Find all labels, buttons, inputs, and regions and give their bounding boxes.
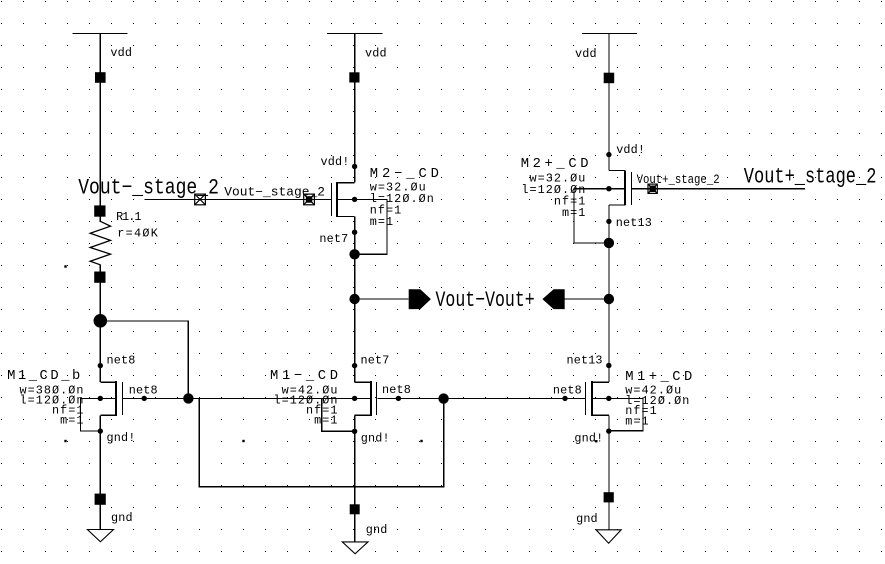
svg-text:net13: net13 [616,216,652,230]
svg-text:vdd: vdd [110,46,132,60]
svg-text:net8: net8 [382,383,411,397]
svg-text:net7: net7 [361,353,390,367]
svg-text:gnd: gnd [111,511,133,525]
svg-text:Vout−_stage_2: Vout−_stage_2 [78,176,219,201]
svg-text:Vout+_stage_2: Vout+_stage_2 [744,165,877,190]
svg-text:R1.1: R1.1 [116,210,141,224]
svg-text:M1_CD_b: M1_CD_b [7,368,80,384]
svg-text:vdd!: vdd! [321,155,350,169]
svg-text:vdd: vdd [365,47,387,61]
svg-text:gnd: gnd [366,523,388,537]
svg-text:net13: net13 [567,354,603,368]
svg-text:vdd!: vdd! [616,143,645,157]
svg-text:Vout−_stage_2: Vout−_stage_2 [224,186,325,200]
svg-text:m=1: m=1 [625,414,649,428]
svg-text:gnd!: gnd! [107,431,136,445]
svg-text:m=1: m=1 [370,215,394,229]
svg-text:gnd!: gnd! [361,431,390,445]
svg-text:net8: net8 [129,384,158,398]
svg-text:r=4ØK: r=4ØK [117,227,159,241]
svg-text:net8: net8 [553,384,582,398]
svg-text:gnd: gnd [576,512,598,526]
svg-text:net7: net7 [319,232,348,246]
svg-text:m=1: m=1 [314,413,338,427]
svg-text:Vout−Vout+: Vout−Vout+ [436,288,535,313]
svg-text:Vout+_stage_2: Vout+_stage_2 [637,173,720,187]
svg-text:net8: net8 [107,353,136,367]
svg-text:gnd!: gnd! [574,432,603,446]
svg-text:m=1: m=1 [562,206,586,220]
svg-text:vdd: vdd [575,47,597,61]
svg-text:m=1: m=1 [60,413,84,427]
